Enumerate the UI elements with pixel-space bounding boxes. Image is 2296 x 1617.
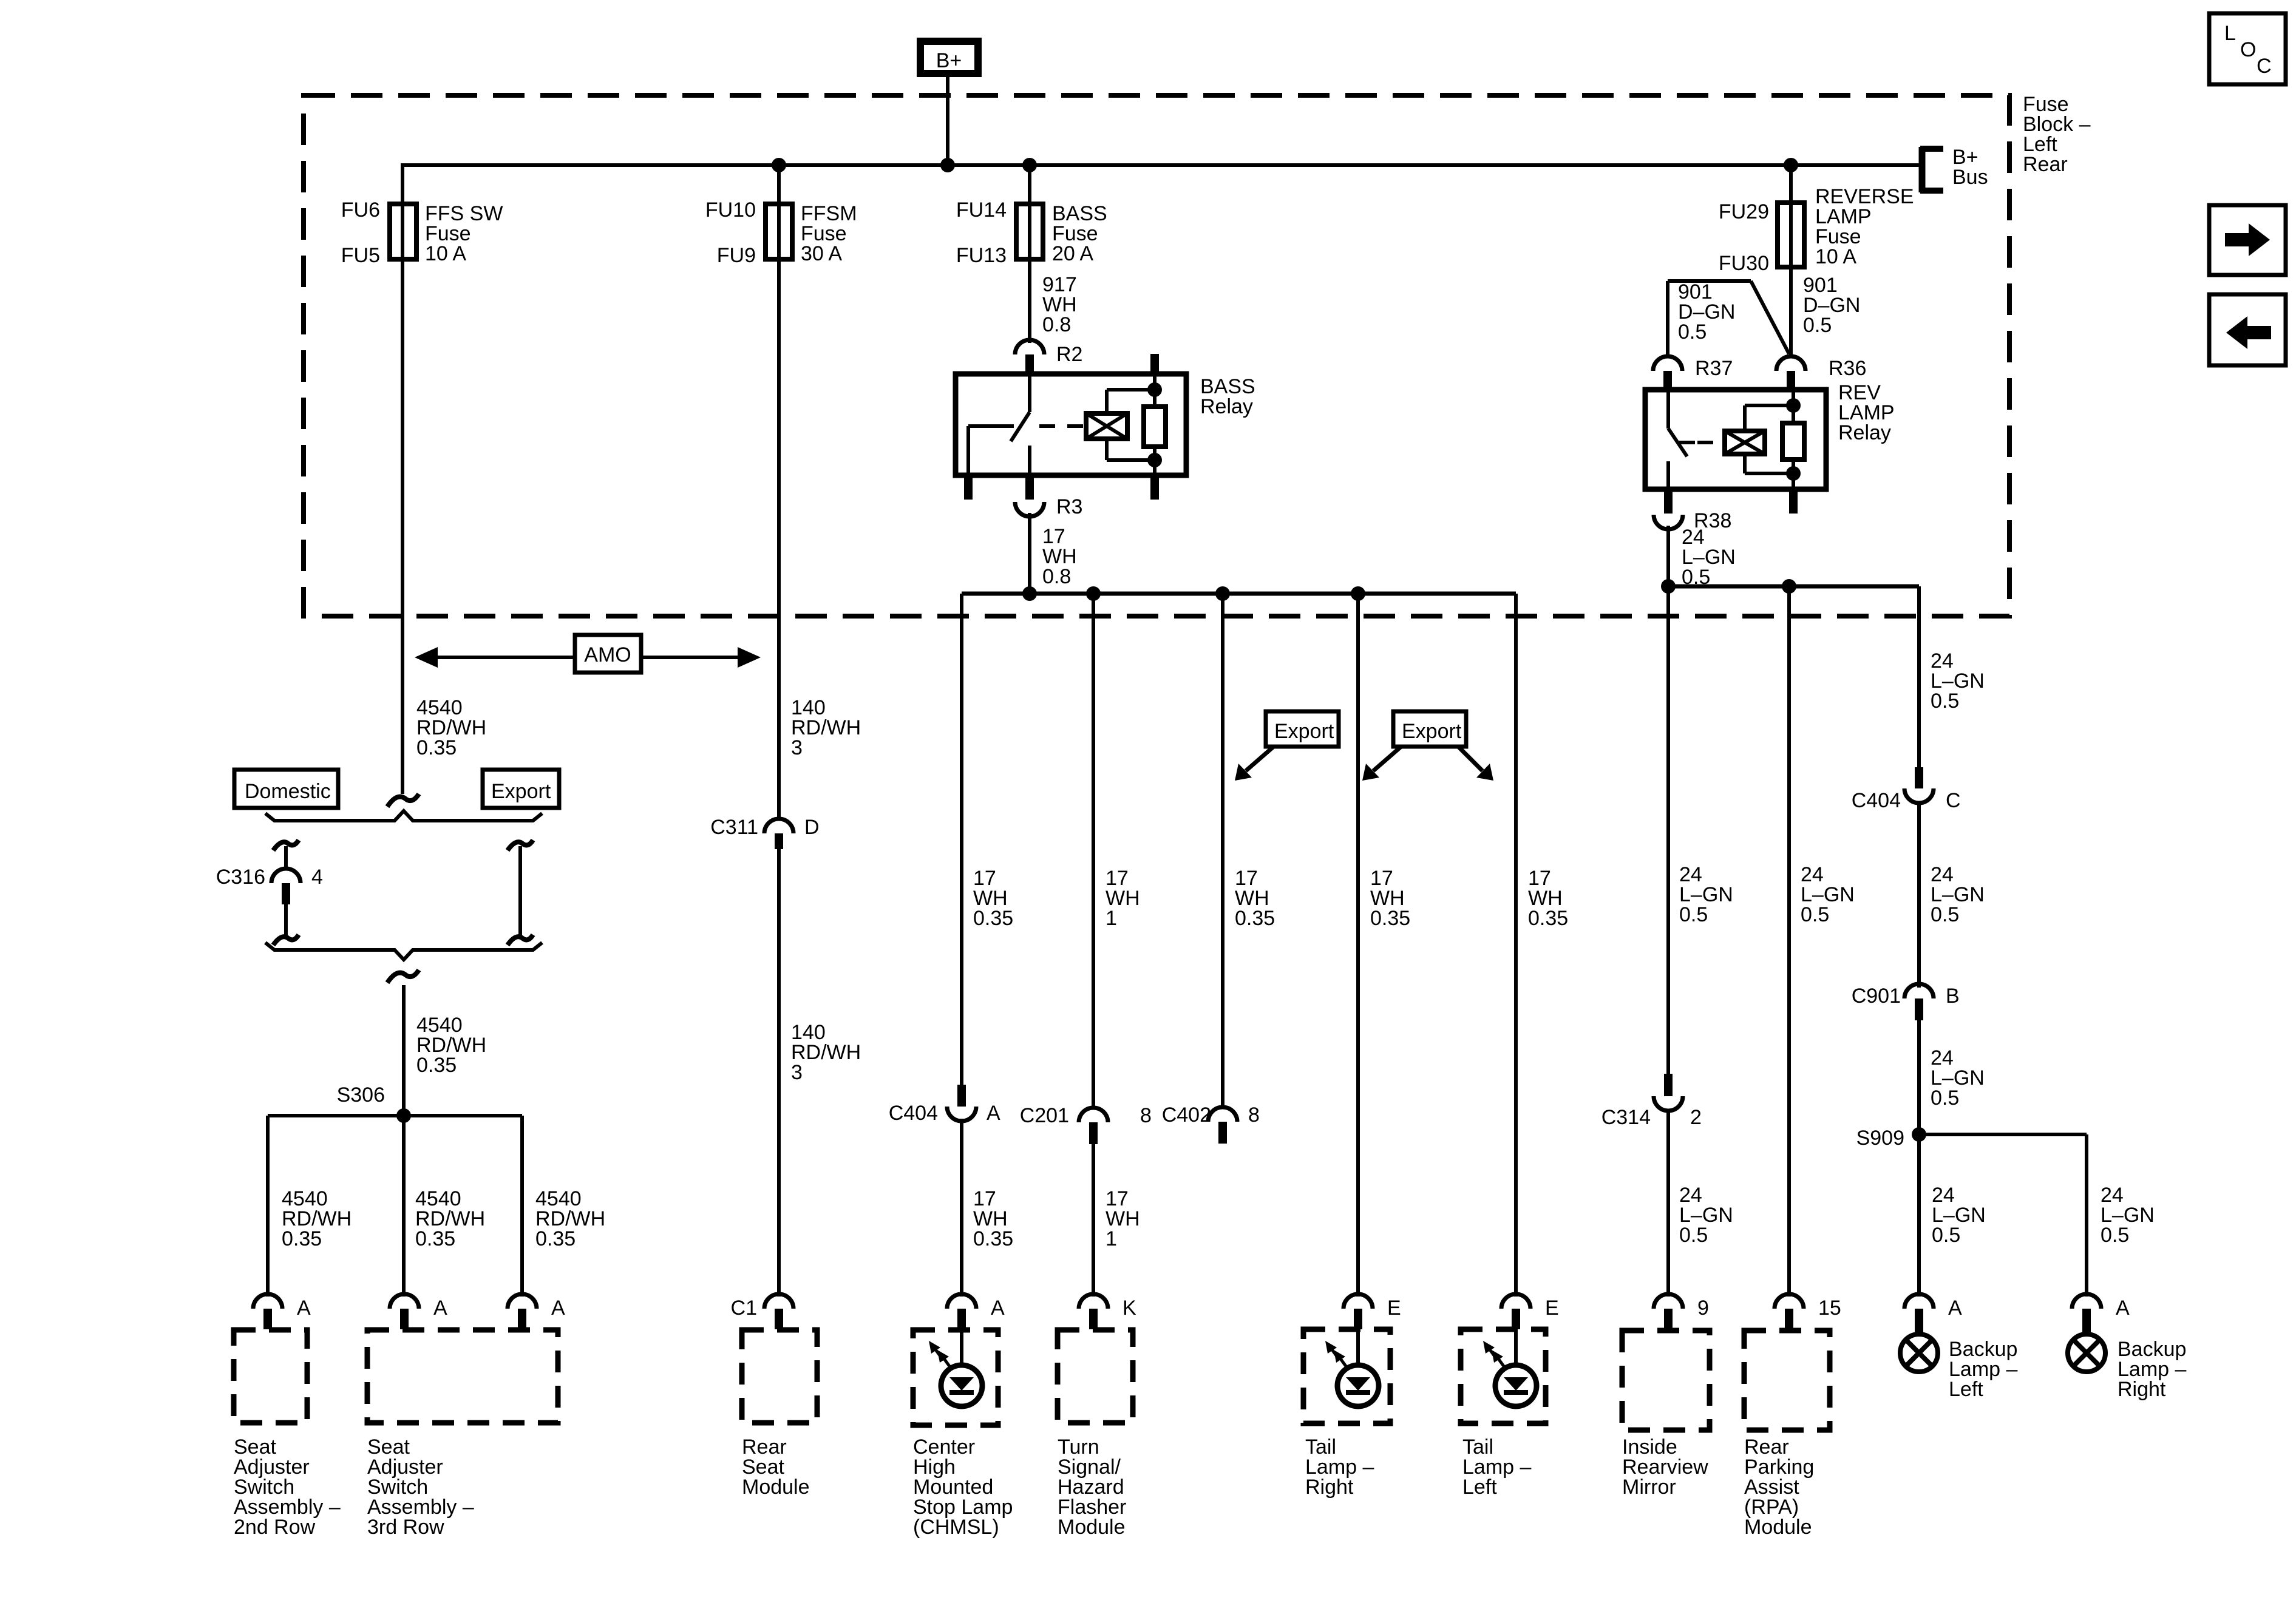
svg-text:10 A: 10 A — [1815, 245, 1856, 268]
svg-text:0.35: 0.35 — [415, 1227, 455, 1250]
svg-text:0.5: 0.5 — [1931, 690, 1959, 713]
svg-text:C404: C404 — [889, 1102, 938, 1125]
svg-text:C201: C201 — [1020, 1104, 1069, 1127]
svg-text:0.5: 0.5 — [1931, 903, 1959, 926]
svg-text:4: 4 — [311, 866, 323, 889]
svg-text:A: A — [987, 1102, 1000, 1125]
svg-text:0.5: 0.5 — [1803, 314, 1832, 337]
svg-text:0.35: 0.35 — [1235, 907, 1275, 930]
svg-text:C: C — [1946, 789, 1961, 812]
svg-text:B: B — [1946, 985, 1960, 1008]
svg-text:0.5: 0.5 — [2101, 1224, 2129, 1247]
svg-text:C: C — [2257, 55, 2272, 78]
svg-text:R37: R37 — [1695, 357, 1733, 380]
svg-text:A: A — [433, 1297, 447, 1320]
svg-text:C402: C402 — [1162, 1103, 1211, 1127]
svg-text:Relay: Relay — [1200, 395, 1253, 418]
svg-text:0.5: 0.5 — [1679, 1224, 1708, 1247]
svg-text:R36: R36 — [1829, 357, 1866, 380]
svg-text:Module: Module — [1744, 1516, 1812, 1539]
svg-text:Right: Right — [2118, 1378, 2166, 1401]
svg-text:0.35: 0.35 — [416, 736, 457, 759]
svg-text:FU9: FU9 — [717, 244, 756, 267]
svg-text:2: 2 — [1690, 1106, 1702, 1129]
svg-text:0.35: 0.35 — [1528, 907, 1568, 930]
svg-text:B+: B+ — [936, 49, 962, 72]
svg-text:S306: S306 — [337, 1083, 385, 1107]
svg-text:C311: C311 — [710, 816, 758, 839]
svg-text:A: A — [2116, 1297, 2130, 1320]
svg-text:A: A — [297, 1297, 311, 1320]
svg-text:C404: C404 — [1852, 789, 1901, 812]
svg-text:(CHMSL): (CHMSL) — [913, 1516, 999, 1539]
svg-text:FU14: FU14 — [956, 198, 1007, 222]
svg-text:FU5: FU5 — [341, 244, 380, 267]
svg-text:FU13: FU13 — [956, 244, 1007, 267]
svg-text:8: 8 — [1248, 1103, 1260, 1127]
svg-text:D: D — [804, 816, 820, 839]
svg-text:0.5: 0.5 — [1682, 566, 1710, 589]
svg-text:0.5: 0.5 — [1679, 903, 1708, 926]
svg-text:1: 1 — [1106, 1227, 1117, 1250]
svg-text:3rd Row: 3rd Row — [367, 1516, 444, 1539]
svg-text:AMO: AMO — [584, 643, 631, 666]
svg-text:FU6: FU6 — [341, 198, 380, 222]
svg-text:0.5: 0.5 — [1931, 1086, 1959, 1110]
svg-text:0.35: 0.35 — [535, 1227, 576, 1250]
svg-text:E: E — [1545, 1297, 1559, 1320]
svg-text:Bus: Bus — [1952, 166, 1988, 189]
svg-text:9: 9 — [1697, 1297, 1709, 1320]
svg-text:A: A — [991, 1297, 1005, 1320]
svg-text:Module: Module — [1058, 1516, 1126, 1539]
svg-text:Left: Left — [1949, 1378, 1983, 1401]
svg-text:0.35: 0.35 — [973, 907, 1013, 930]
svg-text:FU30: FU30 — [1719, 252, 1769, 275]
svg-text:15: 15 — [1818, 1297, 1841, 1320]
svg-text:C901: C901 — [1852, 985, 1901, 1008]
svg-text:K: K — [1123, 1297, 1136, 1320]
svg-text:8: 8 — [1140, 1104, 1152, 1127]
svg-text:C314: C314 — [1601, 1106, 1651, 1129]
svg-text:Mirror: Mirror — [1622, 1476, 1676, 1499]
svg-text:Relay: Relay — [1838, 421, 1891, 444]
svg-text:0.35: 0.35 — [282, 1227, 322, 1250]
svg-text:FU29: FU29 — [1719, 200, 1769, 223]
svg-text:S909: S909 — [1856, 1127, 1904, 1150]
svg-text:Module: Module — [742, 1476, 810, 1499]
svg-text:C1: C1 — [731, 1297, 757, 1320]
svg-text:Export: Export — [1274, 720, 1334, 743]
svg-text:R2: R2 — [1056, 343, 1082, 366]
svg-text:0.8: 0.8 — [1042, 313, 1071, 336]
svg-text:Export: Export — [1402, 720, 1462, 743]
svg-text:20 A: 20 A — [1052, 242, 1093, 265]
svg-text:30 A: 30 A — [801, 242, 842, 265]
svg-text:Domestic: Domestic — [245, 780, 331, 803]
svg-text:3: 3 — [791, 1061, 803, 1084]
svg-text:C316: C316 — [216, 866, 265, 889]
svg-text:E: E — [1387, 1297, 1401, 1320]
svg-text:1: 1 — [1106, 907, 1117, 930]
svg-text:Right: Right — [1305, 1476, 1354, 1499]
svg-text:0.5: 0.5 — [1678, 320, 1707, 344]
svg-text:O: O — [2240, 38, 2256, 61]
svg-text:Export: Export — [491, 780, 551, 803]
svg-text:A: A — [1948, 1297, 1962, 1320]
svg-text:0.35: 0.35 — [973, 1227, 1013, 1250]
svg-text:0.35: 0.35 — [416, 1054, 457, 1077]
svg-text:0.5: 0.5 — [1801, 903, 1829, 926]
svg-text:Left: Left — [1462, 1476, 1497, 1499]
svg-text:3: 3 — [791, 736, 803, 759]
svg-text:0.8: 0.8 — [1042, 565, 1071, 588]
svg-text:FU10: FU10 — [705, 198, 756, 222]
svg-text:A: A — [551, 1297, 565, 1320]
svg-text:Rear: Rear — [2023, 153, 2068, 176]
svg-text:0.35: 0.35 — [1370, 907, 1410, 930]
svg-text:10 A: 10 A — [425, 242, 466, 265]
svg-text:R3: R3 — [1056, 495, 1082, 518]
svg-text:L: L — [2224, 22, 2236, 45]
svg-text:0.5: 0.5 — [1932, 1224, 1960, 1247]
svg-text:2nd Row: 2nd Row — [234, 1516, 316, 1539]
